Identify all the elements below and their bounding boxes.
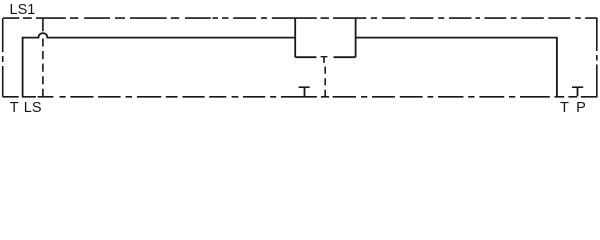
pilot line LS1 to LS (dashed) [42, 18, 44, 97]
valve U1 right edge [355, 18, 357, 57]
svg-text:T: T [560, 100, 569, 115]
svg-text:P: P [576, 100, 586, 115]
enclosure bottom boundary (phantom dashes) [3, 96, 598, 98]
wire: outlet gallery down to bottom-right port [356, 38, 557, 97]
enclosure top boundary (phantom dashes) [3, 17, 598, 19]
valve U1 left edge [294, 18, 296, 57]
tank port symbol T (right of bottom boundary) [572, 87, 583, 96]
tank port symbol T (middle of bottom boundary) [299, 87, 310, 96]
enclosure right boundary (phantom dashes) [596, 18, 598, 97]
svg-text:LS1: LS1 [10, 2, 36, 18]
svg-text:LS: LS [24, 100, 42, 115]
wire: T riser and supply gallery with jump over LS pilot line [23, 33, 296, 97]
valve U1 bottom edge [295, 56, 355, 58]
drain line from valve tank pin (dashed) [324, 67, 326, 97]
valve tank pin symbol T [321, 57, 328, 63]
svg-text:T: T [10, 100, 19, 115]
enclosure left boundary (phantom dashes) [2, 18, 4, 97]
